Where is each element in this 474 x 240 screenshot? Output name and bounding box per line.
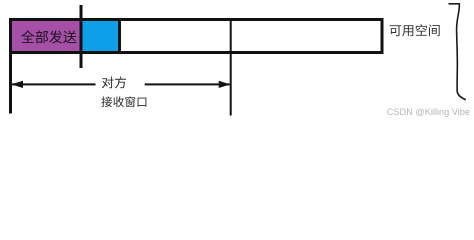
- dimension arrow right segment: [145, 83, 230, 85]
- dimension arrow left segment: [12, 83, 96, 85]
- bar right border: [381, 18, 384, 54]
- label: 接收窗口: [101, 96, 146, 107]
- label: 对方: [102, 76, 126, 88]
- segment: sent-not-acked (cyan): [83, 21, 119, 51]
- left arrowhead: [11, 81, 23, 88]
- bar left border + left extension tick: [9, 18, 12, 114]
- bar top border: [9, 18, 384, 21]
- long divider + right tick: [230, 18, 232, 116]
- right arrowhead: [219, 81, 231, 88]
- label: 可用空间: [390, 24, 440, 36]
- watermark CSDN @Killing Vibe: [387, 107, 470, 117]
- tall divider between purple and cyan: [80, 5, 83, 68]
- label: 全部发送: [21, 30, 76, 43]
- right curly brace: [449, 4, 466, 100]
- bar bottom border: [9, 51, 384, 54]
- divider cyan/white: [118, 18, 121, 54]
- segment: sent (purple): [12, 21, 80, 51]
